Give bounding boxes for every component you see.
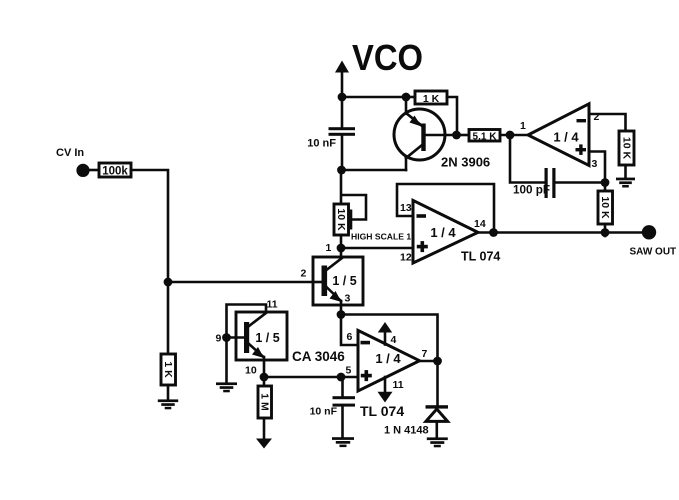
svg-text:1 M: 1 M <box>259 393 271 411</box>
node K junction <box>337 310 346 319</box>
wire <box>457 134 470 137</box>
svg-text:SAW OUT: SAW OUT <box>630 247 677 258</box>
wire <box>624 165 627 178</box>
svg-text:9: 9 <box>216 333 222 345</box>
ground G4 <box>216 382 237 392</box>
wire <box>264 376 341 379</box>
wire <box>167 385 170 400</box>
wire <box>131 170 168 282</box>
node F junction <box>601 228 610 237</box>
pin 2 wire <box>589 114 626 131</box>
svg-text:5,1 K: 5,1 K <box>473 132 498 143</box>
capacitor C3 10 nF <box>310 377 355 438</box>
op-amp U2 1/4 TL074 (upper) <box>413 200 500 263</box>
svg-text:1: 1 <box>520 120 526 132</box>
svg-text:3: 3 <box>592 158 598 170</box>
svg-text:3: 3 <box>345 293 351 305</box>
op-amp U4 1/4 TL074 (lower) <box>358 330 420 419</box>
wire <box>263 377 266 386</box>
wire pin 6 <box>341 315 358 346</box>
power arrow pin 11 <box>378 377 404 403</box>
node A junction <box>338 93 347 102</box>
svg-text:1 / 5: 1 / 5 <box>255 331 279 345</box>
svg-text:TL 074: TL 074 <box>360 403 404 419</box>
svg-text:5: 5 <box>346 365 352 377</box>
node H junction <box>337 244 346 253</box>
trimmer RT 10 K <box>334 170 366 235</box>
svg-text:2: 2 <box>301 268 307 280</box>
resistor R2 1 K <box>415 91 447 105</box>
wire pin 12 <box>341 247 413 250</box>
svg-text:14: 14 <box>474 218 486 230</box>
wire <box>340 301 343 315</box>
transistor Q1 2N 3906 <box>394 97 490 170</box>
resistor R1 100k <box>99 163 131 178</box>
svg-text:1 / 4: 1 / 4 <box>375 351 401 366</box>
node I junction <box>337 166 346 175</box>
terminal CV In <box>56 147 99 177</box>
transistor Q3 1/5 CA3046 <box>236 312 287 360</box>
wire node D down to 100 pF <box>510 135 545 183</box>
wire <box>604 224 607 236</box>
node E junction <box>601 178 610 187</box>
svg-text:7: 7 <box>422 348 428 360</box>
node N junction <box>260 373 269 382</box>
svg-text:TL 074: TL 074 <box>461 250 500 264</box>
svg-text:4: 4 <box>391 334 397 346</box>
resistor R5 1 M <box>258 386 272 418</box>
wire pin 5 <box>341 376 358 379</box>
power supply arrow VCO rail <box>335 61 349 99</box>
svg-text:HIGH SCALE 1: HIGH SCALE 1 <box>351 232 411 242</box>
svg-text:1 / 5: 1 / 5 <box>332 274 356 288</box>
svg-text:11: 11 <box>267 299 278 311</box>
terminal SAW OUT <box>630 225 677 257</box>
pin 3 wire <box>589 152 605 183</box>
svg-text:1 / 4: 1 / 4 <box>553 130 579 145</box>
ground G5 <box>158 399 178 409</box>
svg-text:6: 6 <box>347 331 353 343</box>
wire feedback to node L <box>341 315 438 362</box>
svg-text:1 / 4: 1 / 4 <box>430 225 456 240</box>
svg-text:1 K: 1 K <box>423 93 440 105</box>
resistor R6 10 K <box>619 131 634 165</box>
wire <box>406 96 415 99</box>
ground G1 <box>616 178 635 188</box>
svg-text:10: 10 <box>245 365 257 377</box>
wire <box>167 282 170 354</box>
wire <box>604 183 607 192</box>
wire base Q2 <box>168 281 321 284</box>
wire saw output line <box>478 231 643 234</box>
node C junction <box>452 131 461 140</box>
capacitor C2 100 pF <box>513 168 605 198</box>
svg-text:100 pF: 100 pF <box>513 184 550 197</box>
transistor Q2 1/5 CA3046 <box>313 257 363 305</box>
diode D1 1N4148 <box>384 361 448 438</box>
svg-text:10 K: 10 K <box>335 208 347 231</box>
node B junction <box>402 93 411 102</box>
svg-text:100k: 100k <box>102 166 128 178</box>
node O junction <box>222 333 231 342</box>
ground G2 <box>332 437 354 447</box>
wire collector pin 11 to base pin 9 to ground <box>227 305 267 384</box>
power arrow negative rail <box>256 418 272 449</box>
node D junction <box>506 131 515 140</box>
svg-text:1: 1 <box>326 242 332 254</box>
svg-text:11: 11 <box>393 379 404 391</box>
resistor R3 5,1 K <box>469 130 500 143</box>
wire collector to node I <box>341 169 406 172</box>
resistor R4 1 K <box>161 354 176 385</box>
wire <box>342 96 406 99</box>
wire emitter pin 10 <box>263 357 266 377</box>
capacitor C1 10 nF <box>307 97 355 170</box>
node G junction <box>489 228 498 237</box>
svg-text:CV In: CV In <box>56 147 84 159</box>
svg-text:1 K: 1 K <box>162 361 174 378</box>
power arrow pin 4 <box>378 322 397 346</box>
node L junction <box>433 357 442 366</box>
node M junction <box>337 373 346 382</box>
wire base <box>426 134 457 137</box>
svg-text:2N 3906: 2N 3906 <box>441 155 490 170</box>
wire <box>447 97 457 135</box>
svg-text:10 nF: 10 nF <box>310 406 338 418</box>
svg-text:2: 2 <box>594 111 600 123</box>
svg-text:CA 3046: CA 3046 <box>292 349 345 364</box>
svg-text:10 K: 10 K <box>621 137 633 160</box>
ground G3 <box>427 437 448 447</box>
wire <box>340 235 343 258</box>
resistor R7 10 K <box>598 191 613 224</box>
svg-text:10 K: 10 K <box>599 196 611 219</box>
node J junction <box>164 278 173 287</box>
wire output pin 7 <box>420 360 438 363</box>
svg-text:12: 12 <box>400 252 412 264</box>
op-amp U3 1/4 TL074 (points left) <box>528 104 589 166</box>
svg-text:13: 13 <box>400 202 412 214</box>
wire feedback pin13 to output <box>397 184 494 233</box>
wire base pin 9 <box>227 336 245 339</box>
svg-text:10 nF: 10 nF <box>307 138 336 150</box>
svg-text:VCO: VCO <box>352 37 423 78</box>
svg-text:1 N 4148: 1 N 4148 <box>384 425 429 437</box>
wire <box>500 134 528 137</box>
